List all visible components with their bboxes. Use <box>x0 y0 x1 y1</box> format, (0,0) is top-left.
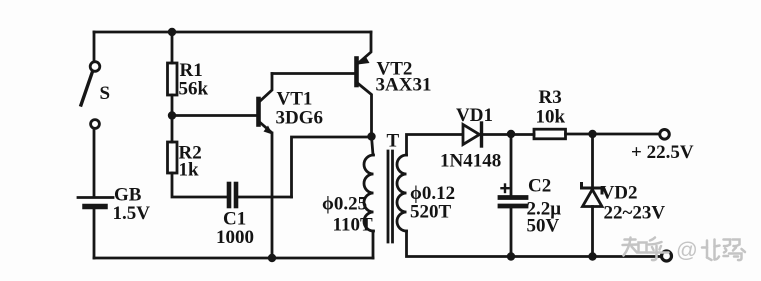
wire bottom rail (primary side) <box>94 257 373 260</box>
diode VD1 triangle <box>463 125 480 145</box>
transistor VT1 emitter arrow <box>264 126 273 135</box>
zener diode VD2 top lead <box>591 134 594 187</box>
transistor VT2 base bar <box>354 59 359 86</box>
wire R2 bottom to C1 <box>172 173 227 197</box>
svg-text:VD2: VD2 <box>601 183 638 204</box>
switch S bottom contact <box>91 120 100 129</box>
transistor VT2 emitter arrow <box>358 57 370 65</box>
junction R3 / VD2 <box>588 130 596 138</box>
transformer T secondary winding <box>397 155 407 231</box>
wire switch to battery <box>93 129 96 197</box>
battery GB negative plate <box>85 204 105 210</box>
junction VD2 / bottom <box>588 252 596 260</box>
wire VT1 collector to VT2 base <box>272 72 355 75</box>
zener diode VD2 triangle <box>583 190 603 207</box>
transistor VT1 collector <box>260 74 273 102</box>
svg-text:T: T <box>387 131 400 152</box>
resistor R1 <box>168 63 178 95</box>
svg-text:S: S <box>100 83 111 104</box>
svg-text:3DG6: 3DG6 <box>276 108 324 129</box>
transformer T core line left <box>387 151 390 242</box>
svg-text:1000: 1000 <box>216 227 254 248</box>
capacitor C2 bottom lead <box>510 208 513 257</box>
zener diode VD2 cathode bar <box>582 184 603 194</box>
output terminal - (bottom right) <box>662 251 672 261</box>
wire battery to bottom rail <box>93 208 96 258</box>
switch S lever <box>81 73 92 105</box>
junction VT2 collector / feedback / primary <box>367 132 375 140</box>
svg-text:VD1: VD1 <box>456 105 493 126</box>
capacitor C2 top lead <box>510 134 513 195</box>
watermark char hu <box>648 238 669 261</box>
wire top rail <box>94 31 371 34</box>
output terminal + (top right) <box>660 130 670 140</box>
svg-text:C2: C2 <box>528 176 551 197</box>
svg-text:ϕ0.25: ϕ0.25 <box>322 194 367 215</box>
svg-text:520T: 520T <box>410 202 452 223</box>
transistor VT2 emitter (to top rail) <box>359 32 371 63</box>
watermark char liu <box>724 240 746 261</box>
junction C2 / bottom <box>507 252 515 260</box>
transformer T primary top lead <box>372 137 374 156</box>
capacitor C1 right plate <box>234 184 239 206</box>
svg-text:10k: 10k <box>536 107 566 128</box>
diode VD1 cathode bar <box>480 123 483 146</box>
junction R1 R2 base <box>168 111 176 119</box>
battery GB positive plate <box>78 196 113 199</box>
transistor VT1 emitter <box>260 122 272 132</box>
wire feedback riser <box>292 137 372 197</box>
capacitor C2 polarity plus <box>502 185 509 193</box>
transformer T secondary bottom lead <box>407 231 661 257</box>
svg-text:VT1: VT1 <box>277 89 313 110</box>
svg-text:@: @ <box>676 238 698 262</box>
switch S top contact <box>90 62 100 72</box>
wire left rail upper (to switch) <box>93 32 96 61</box>
svg-text:1N4148: 1N4148 <box>440 151 501 172</box>
wire C1 to feedback riser <box>238 196 292 199</box>
junction emitter / bottom rail <box>268 254 276 262</box>
junction VD1 / C2 <box>507 130 515 138</box>
svg-text:50V: 50V <box>527 216 560 237</box>
watermark char bei <box>702 240 720 261</box>
capacitor C2 bottom plate <box>500 204 526 209</box>
wire VD1 to R3 <box>482 133 534 136</box>
transformer T core line right <box>391 151 394 242</box>
svg-text:3AX31: 3AX31 <box>376 75 432 96</box>
transformer T secondary top lead <box>407 135 462 156</box>
wire VT1 emitter to bottom rail <box>271 133 274 258</box>
svg-text:22~23V: 22~23V <box>604 203 666 224</box>
wire R1 to R2 <box>171 95 174 142</box>
resistor R2 <box>168 142 178 173</box>
transistor VT1 base bar <box>256 99 261 125</box>
transistor VT2 collector <box>358 84 372 137</box>
wire base feed to VT1 <box>172 114 256 117</box>
capacitor C2 top plate <box>500 195 526 200</box>
svg-text:110T: 110T <box>333 215 373 236</box>
svg-text:1.5V: 1.5V <box>113 203 151 224</box>
svg-text:+ 22.5V: + 22.5V <box>631 142 694 163</box>
junction top rail / R1 <box>168 28 176 36</box>
zener diode VD2 bottom lead <box>591 207 594 257</box>
svg-text:56k: 56k <box>179 79 209 100</box>
transformer T primary winding <box>364 155 374 231</box>
svg-text:R3: R3 <box>539 87 562 108</box>
watermark char zhi <box>623 238 647 256</box>
watermark zhihu <box>623 238 746 261</box>
wire R1 top lead <box>171 32 174 63</box>
capacitor C1 left plate <box>227 184 232 206</box>
wire R3 to output terminal <box>566 133 659 136</box>
svg-text:1k: 1k <box>179 160 200 181</box>
resistor R3 <box>534 129 566 139</box>
transformer T primary bottom lead <box>372 231 375 258</box>
